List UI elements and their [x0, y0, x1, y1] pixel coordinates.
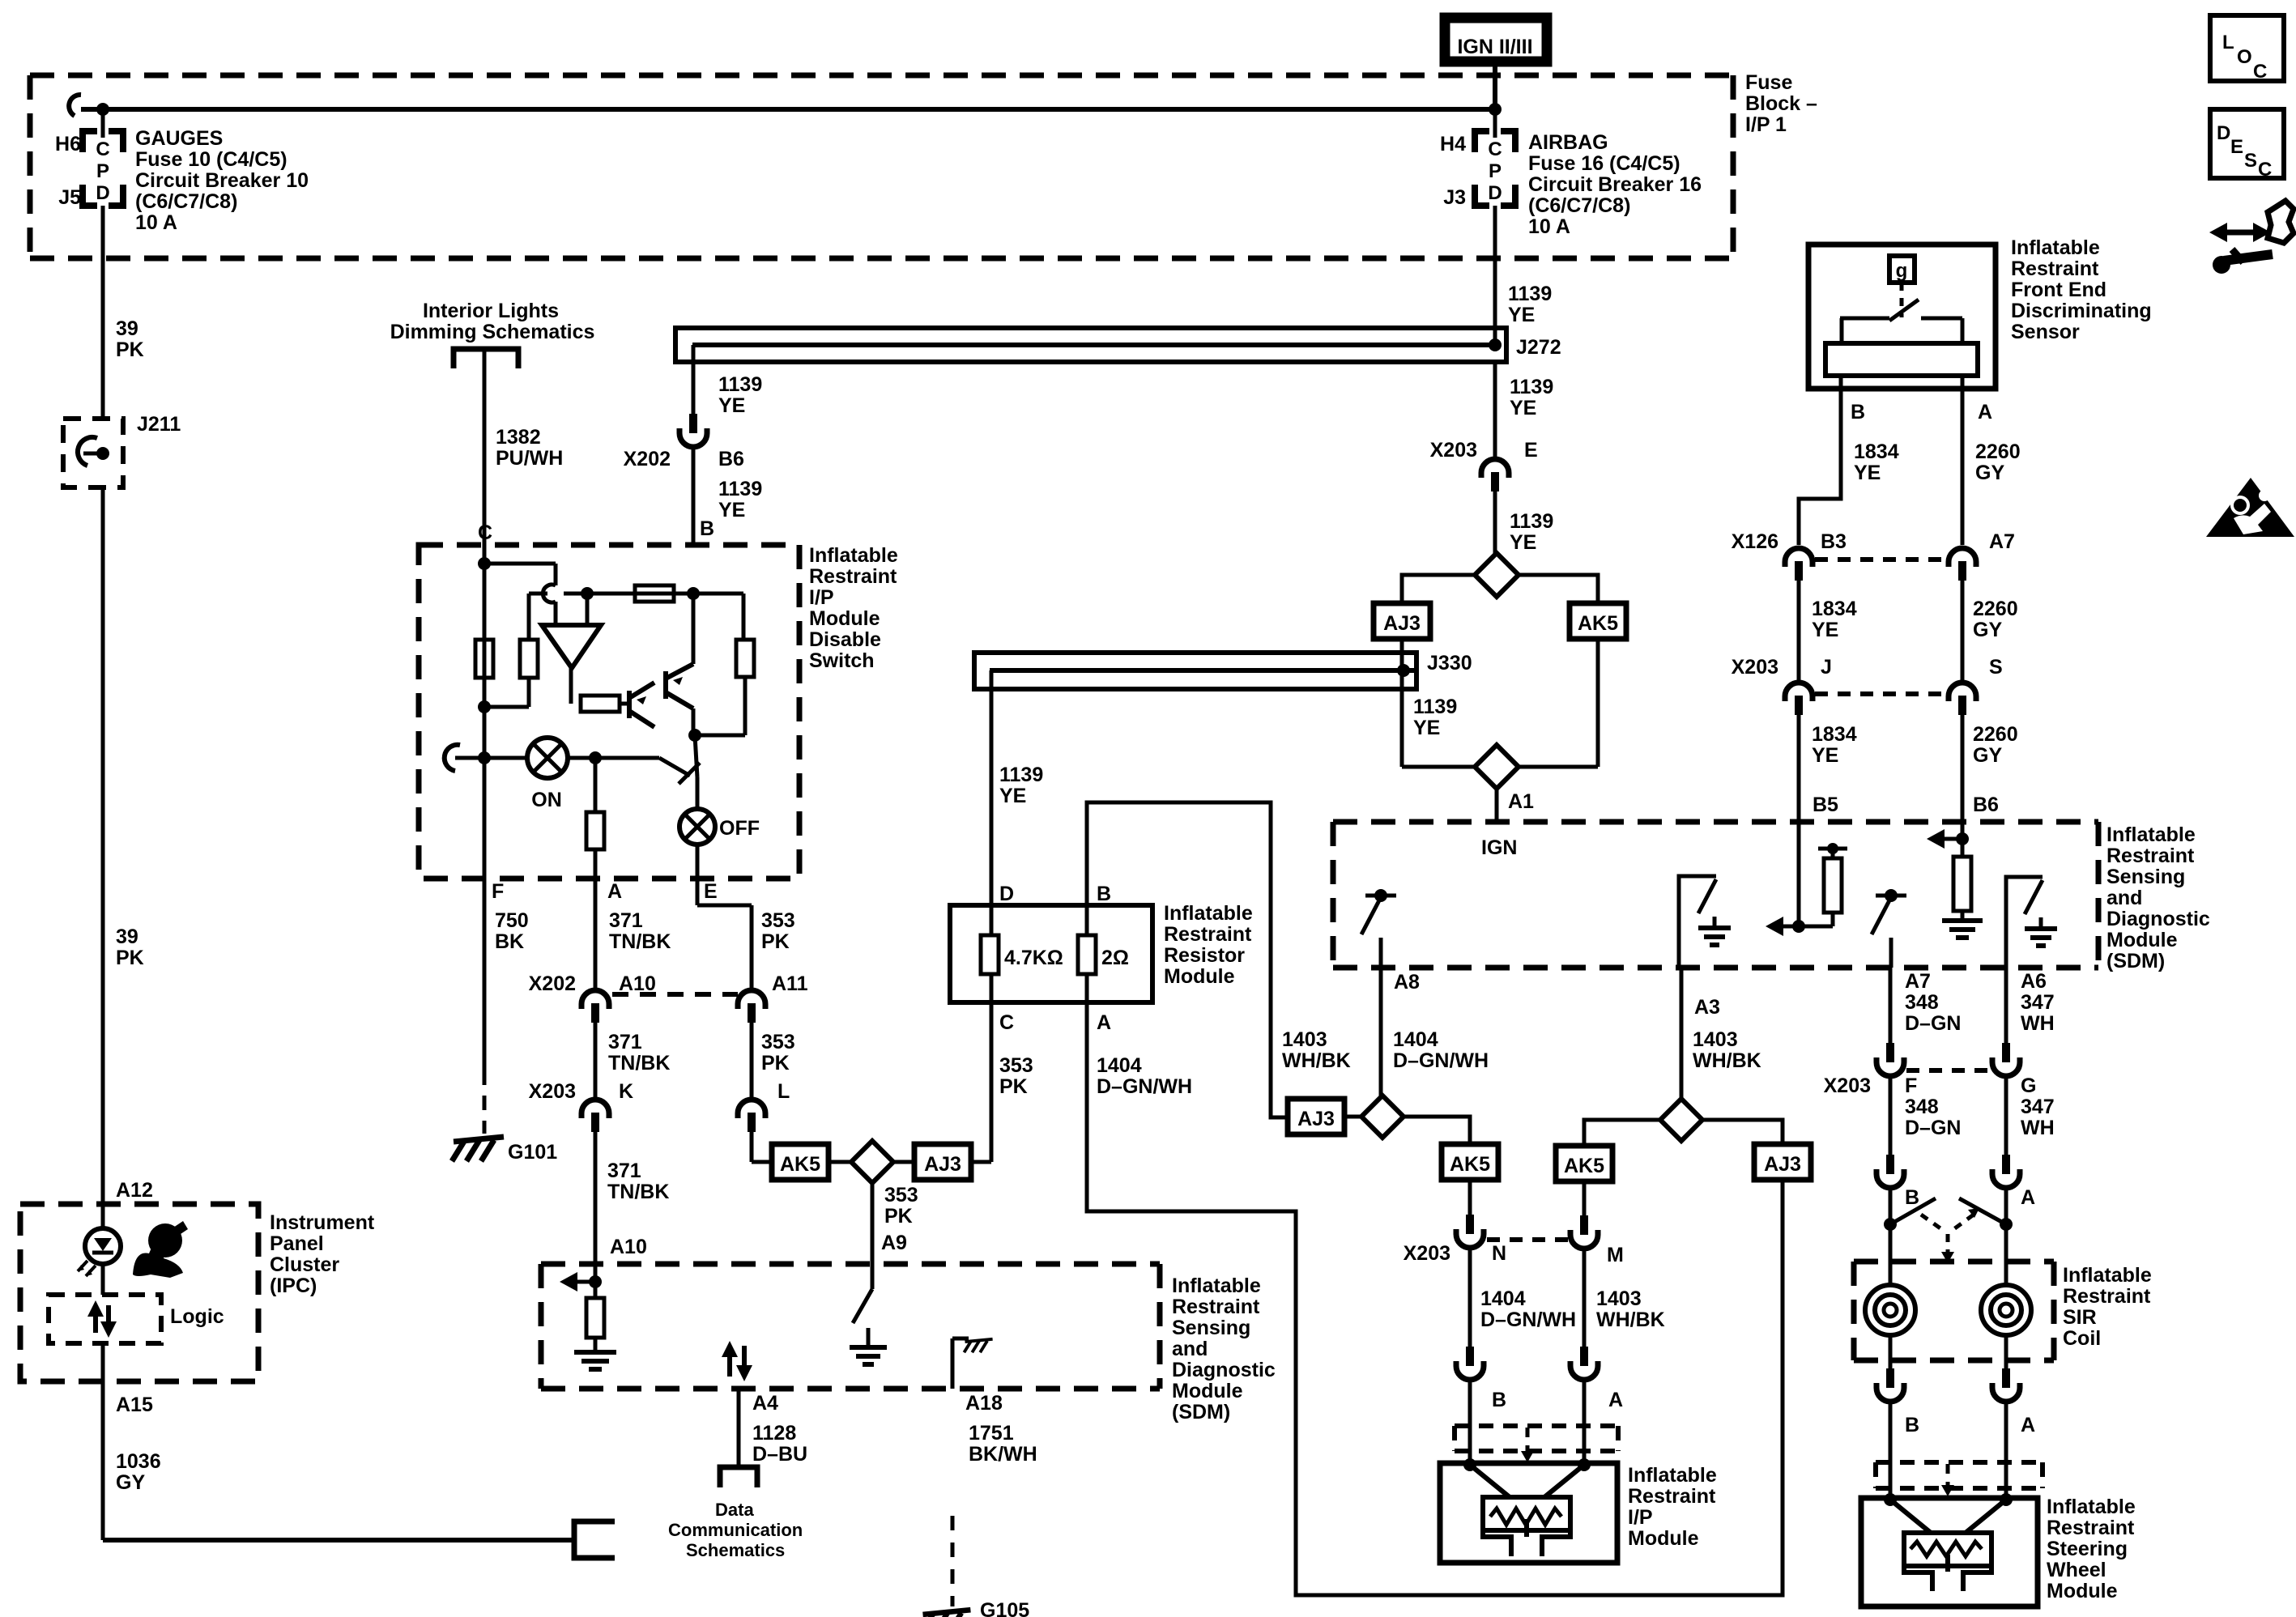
svg-text:E: E [2230, 136, 2243, 158]
svg-text:YE: YE [1510, 397, 1536, 419]
svg-text:WH: WH [2021, 1012, 2055, 1035]
svg-text:1139: 1139 [999, 764, 1043, 786]
svg-text:E: E [704, 880, 718, 903]
svg-text:A: A [2021, 1186, 2035, 1209]
svg-text:353: 353 [999, 1054, 1033, 1077]
svg-text:A6: A6 [2021, 970, 2047, 993]
svg-text:371: 371 [609, 909, 643, 932]
svg-text:SIR: SIR [2063, 1306, 2097, 1329]
svg-text:H4: H4 [1440, 133, 1466, 155]
svg-text:Interior Lights: Interior Lights [423, 300, 559, 322]
svg-text:Diagnostic: Diagnostic [2106, 908, 2210, 930]
svg-text:Restraint: Restraint [809, 565, 897, 588]
svg-text:1403: 1403 [1282, 1028, 1327, 1051]
svg-text:D–GN: D–GN [1905, 1117, 1961, 1139]
svg-text:Panel: Panel [270, 1232, 324, 1255]
svg-text:39: 39 [116, 926, 138, 948]
svg-text:371: 371 [607, 1160, 641, 1182]
svg-text:B: B [1492, 1389, 1506, 1411]
svg-text:1751: 1751 [969, 1422, 1014, 1445]
svg-text:I/P 1: I/P 1 [1745, 113, 1787, 136]
svg-text:B: B [1905, 1414, 1919, 1436]
svg-text:1139: 1139 [1413, 696, 1457, 718]
svg-text:D–GN/WH: D–GN/WH [1097, 1075, 1192, 1098]
svg-text:1403: 1403 [1693, 1028, 1738, 1051]
svg-text:g: g [1896, 260, 1908, 282]
svg-text:Wheel: Wheel [2047, 1559, 2106, 1581]
svg-text:C: C [999, 1011, 1014, 1034]
svg-text:Data: Data [715, 1500, 754, 1520]
svg-text:1404: 1404 [1393, 1028, 1438, 1051]
svg-text:Schematics: Schematics [686, 1540, 785, 1560]
svg-text:1139: 1139 [718, 478, 762, 500]
svg-text:I/P: I/P [809, 586, 834, 609]
svg-text:D–GN/WH: D–GN/WH [1393, 1049, 1489, 1072]
svg-text:F: F [492, 880, 504, 903]
svg-text:AK5: AK5 [780, 1153, 820, 1176]
svg-text:X203: X203 [1732, 656, 1778, 679]
svg-text:C: C [478, 521, 492, 544]
svg-text:Communication: Communication [668, 1520, 803, 1540]
svg-text:Switch: Switch [809, 649, 875, 672]
svg-text:D: D [999, 883, 1014, 905]
svg-text:A7: A7 [1905, 970, 1931, 993]
svg-text:GY: GY [116, 1471, 145, 1494]
svg-text:Diagnostic: Diagnostic [1172, 1359, 1276, 1381]
svg-text:Fuse: Fuse [1745, 71, 1792, 94]
svg-text:K: K [619, 1080, 633, 1103]
svg-text:2260: 2260 [1973, 723, 2018, 746]
svg-text:Inflatable: Inflatable [1164, 902, 1253, 925]
svg-text:Module: Module [809, 607, 880, 630]
svg-text:Coil: Coil [2063, 1327, 2101, 1350]
svg-text:B6: B6 [718, 448, 744, 470]
svg-text:Restraint: Restraint [1172, 1296, 1260, 1318]
svg-text:WH/BK: WH/BK [1282, 1049, 1351, 1072]
svg-text:371: 371 [608, 1031, 642, 1053]
svg-text:(IPC): (IPC) [270, 1274, 317, 1297]
svg-text:1139: 1139 [1508, 283, 1552, 305]
svg-text:B5: B5 [1813, 794, 1838, 816]
svg-text:PK: PK [761, 930, 790, 953]
svg-text:YE: YE [1508, 304, 1535, 326]
svg-text:Restraint: Restraint [2011, 257, 2099, 280]
svg-text:L: L [777, 1080, 790, 1103]
svg-text:Circuit Breaker 16: Circuit Breaker 16 [1528, 173, 1702, 196]
svg-text:(SDM): (SDM) [2106, 950, 2165, 972]
svg-text:B3: B3 [1821, 530, 1847, 553]
svg-text:Circuit Breaker 10: Circuit Breaker 10 [135, 169, 309, 192]
svg-text:1404: 1404 [1480, 1287, 1526, 1310]
svg-text:2Ω: 2Ω [1101, 947, 1129, 969]
svg-text:X202: X202 [624, 448, 671, 470]
svg-text:(C6/C7/C8): (C6/C7/C8) [1528, 194, 1630, 217]
svg-text:348: 348 [1905, 1096, 1939, 1118]
svg-text:PK: PK [116, 947, 144, 969]
svg-text:353: 353 [761, 1031, 795, 1053]
svg-text:1404: 1404 [1097, 1054, 1142, 1077]
svg-text:1834: 1834 [1854, 440, 1899, 463]
svg-text:GY: GY [1973, 619, 2002, 641]
svg-text:X203: X203 [529, 1080, 576, 1103]
svg-text:347: 347 [2021, 991, 2055, 1014]
svg-text:Resistor: Resistor [1164, 944, 1245, 967]
svg-text:Block –: Block – [1745, 92, 1817, 115]
svg-text:A8: A8 [1394, 971, 1420, 994]
svg-text:ON: ON [531, 789, 562, 811]
svg-text:D–GN/WH: D–GN/WH [1480, 1308, 1576, 1331]
svg-text:1036: 1036 [116, 1450, 161, 1473]
svg-text:4.7KΩ: 4.7KΩ [1004, 947, 1063, 969]
svg-text:Module: Module [1628, 1527, 1699, 1550]
svg-text:A9: A9 [881, 1232, 907, 1254]
svg-text:AK5: AK5 [1578, 612, 1618, 635]
svg-text:353: 353 [884, 1184, 918, 1206]
svg-text:1139: 1139 [1510, 376, 1553, 398]
svg-text:347: 347 [2021, 1096, 2055, 1118]
svg-text:1382: 1382 [496, 426, 541, 449]
svg-text:(C6/C7/C8): (C6/C7/C8) [135, 190, 237, 213]
svg-text:and: and [2106, 887, 2142, 909]
svg-text:GY: GY [1973, 744, 2002, 767]
svg-text:N: N [1492, 1242, 1506, 1265]
svg-text:Front End: Front End [2011, 279, 2106, 301]
svg-text:Inflatable: Inflatable [2047, 1496, 2136, 1518]
svg-text:YE: YE [1413, 717, 1440, 739]
svg-text:2260: 2260 [1975, 440, 2021, 463]
svg-text:A: A [2021, 1414, 2035, 1436]
svg-text:1139: 1139 [718, 373, 762, 396]
svg-text:B: B [700, 517, 714, 540]
svg-text:Module: Module [2047, 1580, 2118, 1602]
svg-text:P: P [96, 160, 109, 182]
svg-text:C: C [2253, 61, 2267, 83]
svg-text:C: C [96, 138, 109, 160]
svg-text:1834: 1834 [1812, 723, 1857, 746]
svg-text:A: A [1097, 1011, 1111, 1034]
svg-text:X203: X203 [1430, 439, 1477, 462]
svg-text:and: and [1172, 1338, 1208, 1360]
svg-text:J211: J211 [137, 413, 181, 436]
svg-text:A: A [607, 880, 622, 903]
svg-text:Inflatable: Inflatable [809, 544, 898, 567]
svg-text:348: 348 [1905, 991, 1939, 1014]
svg-text:A15: A15 [116, 1394, 153, 1416]
svg-text:A12: A12 [116, 1179, 153, 1202]
svg-text:X203: X203 [1824, 1074, 1871, 1097]
svg-text:Sensing: Sensing [1172, 1317, 1250, 1339]
svg-text:PK: PK [761, 1052, 790, 1074]
svg-text:M: M [1607, 1244, 1624, 1266]
svg-text:750: 750 [495, 909, 529, 932]
svg-text:J: J [1821, 656, 1832, 679]
svg-text:1403: 1403 [1596, 1287, 1642, 1310]
svg-text:Inflatable: Inflatable [2011, 236, 2100, 259]
svg-text:GAUGES: GAUGES [135, 127, 223, 150]
svg-text:Steering: Steering [2047, 1538, 2128, 1560]
svg-text:X203: X203 [1404, 1242, 1450, 1265]
svg-text:B: B [1097, 883, 1111, 905]
svg-text:AK5: AK5 [1450, 1153, 1490, 1176]
svg-text:PK: PK [884, 1205, 913, 1228]
svg-text:D: D [2217, 122, 2230, 144]
svg-text:S: S [1989, 656, 2003, 679]
svg-text:AJ3: AJ3 [1383, 612, 1421, 635]
svg-text:Logic: Logic [170, 1305, 224, 1328]
svg-text:1128: 1128 [752, 1422, 796, 1445]
svg-text:C: C [2258, 159, 2272, 181]
svg-text:Module: Module [1172, 1380, 1243, 1402]
svg-text:A: A [1978, 401, 1992, 423]
svg-text:F: F [1905, 1074, 1917, 1097]
svg-text:YE: YE [1812, 744, 1838, 767]
svg-text:PK: PK [999, 1075, 1028, 1098]
svg-text:D–GN: D–GN [1905, 1012, 1961, 1035]
svg-text:AJ3: AJ3 [1764, 1153, 1801, 1176]
svg-text:Disable: Disable [809, 628, 881, 651]
svg-text:O: O [2237, 46, 2252, 68]
svg-text:BK: BK [495, 930, 524, 953]
svg-text:A4: A4 [752, 1392, 778, 1415]
svg-text:PU/WH: PU/WH [496, 447, 563, 470]
svg-text:1834: 1834 [1812, 598, 1857, 620]
svg-text:AJ3: AJ3 [924, 1153, 961, 1176]
svg-text:IGN: IGN [1481, 836, 1517, 859]
svg-text:G101: G101 [508, 1141, 557, 1164]
svg-text:S: S [2244, 150, 2257, 172]
svg-text:Fuse 16 (C4/C5): Fuse 16 (C4/C5) [1528, 152, 1680, 175]
svg-text:YE: YE [1854, 462, 1881, 484]
svg-text:AK5: AK5 [1564, 1155, 1604, 1177]
svg-text:J3: J3 [1443, 186, 1466, 209]
svg-text:G: G [2021, 1074, 2036, 1097]
svg-text:GY: GY [1975, 462, 2004, 484]
svg-text:YE: YE [718, 394, 745, 417]
svg-text:YE: YE [718, 499, 745, 521]
svg-text:A18: A18 [965, 1392, 1003, 1415]
svg-text:10 A: 10 A [135, 211, 177, 234]
svg-text:1139: 1139 [1510, 510, 1553, 533]
svg-text:WH/BK: WH/BK [1596, 1308, 1665, 1331]
svg-text:D: D [1488, 182, 1502, 204]
svg-text:10 A: 10 A [1528, 215, 1570, 238]
svg-text:J5: J5 [58, 186, 81, 209]
svg-text:OFF: OFF [719, 817, 760, 840]
svg-text:G105: G105 [980, 1599, 1029, 1617]
svg-text:P: P [1489, 160, 1502, 182]
svg-text:A: A [1608, 1389, 1623, 1411]
svg-text:H6: H6 [55, 133, 81, 155]
svg-text:Restraint: Restraint [1628, 1485, 1716, 1508]
svg-text:AJ3: AJ3 [1297, 1108, 1335, 1130]
svg-text:A3: A3 [1694, 996, 1720, 1019]
svg-text:X202: X202 [529, 972, 576, 995]
svg-text:AIRBAG: AIRBAG [1528, 131, 1608, 154]
svg-text:Dimming Schematics: Dimming Schematics [390, 321, 595, 343]
svg-text:TN/BK: TN/BK [608, 1052, 670, 1074]
svg-text:WH/BK: WH/BK [1693, 1049, 1761, 1072]
svg-text:J272: J272 [1516, 336, 1561, 359]
svg-text:353: 353 [761, 909, 795, 932]
svg-text:Inflatable: Inflatable [1628, 1464, 1717, 1487]
svg-text:YE: YE [1812, 619, 1838, 641]
svg-text:Module: Module [2106, 929, 2178, 951]
svg-text:YE: YE [999, 785, 1026, 807]
svg-text:Inflatable: Inflatable [2106, 823, 2196, 846]
svg-text:PK: PK [116, 338, 144, 361]
svg-text:Inflatable: Inflatable [2063, 1264, 2152, 1287]
svg-text:Sensing: Sensing [2106, 866, 2185, 888]
svg-text:Cluster: Cluster [270, 1253, 339, 1276]
svg-text:Instrument: Instrument [270, 1211, 375, 1234]
svg-text:Discriminating: Discriminating [2011, 300, 2152, 322]
svg-text:Restraint: Restraint [2106, 845, 2195, 867]
svg-text:YE: YE [1510, 531, 1536, 554]
svg-text:A10: A10 [610, 1236, 647, 1258]
svg-text:2260: 2260 [1973, 598, 2018, 620]
svg-text:D: D [96, 182, 109, 204]
svg-text:L: L [2222, 32, 2234, 53]
svg-text:A10: A10 [619, 972, 656, 995]
svg-text:Inflatable: Inflatable [1172, 1274, 1261, 1297]
svg-text:B: B [1905, 1186, 1919, 1209]
svg-text:A1: A1 [1508, 790, 1534, 813]
svg-text:Restraint: Restraint [2063, 1285, 2151, 1308]
svg-text:J330: J330 [1427, 652, 1472, 674]
svg-text:A11: A11 [772, 972, 808, 995]
svg-text:I/P: I/P [1628, 1506, 1653, 1529]
svg-text:WH: WH [2021, 1117, 2055, 1139]
svg-text:Restraint: Restraint [1164, 923, 1252, 946]
svg-text:C: C [1488, 138, 1502, 160]
svg-text:Sensor: Sensor [2011, 321, 2080, 343]
svg-text:B6: B6 [1973, 794, 1999, 816]
svg-text:TN/BK: TN/BK [609, 930, 671, 953]
svg-text:Fuse 10 (C4/C5): Fuse 10 (C4/C5) [135, 148, 288, 171]
svg-text:A7: A7 [1989, 530, 2015, 553]
svg-text:39: 39 [116, 317, 138, 340]
svg-text:D–BU: D–BU [752, 1443, 807, 1466]
svg-text:X126: X126 [1732, 530, 1778, 553]
svg-text:BK/WH: BK/WH [969, 1443, 1037, 1466]
svg-text:(SDM): (SDM) [1172, 1401, 1230, 1423]
svg-text:E: E [1524, 439, 1538, 462]
svg-text:IGN II/III: IGN II/III [1457, 36, 1532, 58]
svg-text:B: B [1851, 401, 1865, 423]
svg-text:TN/BK: TN/BK [607, 1181, 669, 1203]
svg-text:Restraint: Restraint [2047, 1517, 2135, 1539]
svg-text:Module: Module [1164, 965, 1235, 988]
